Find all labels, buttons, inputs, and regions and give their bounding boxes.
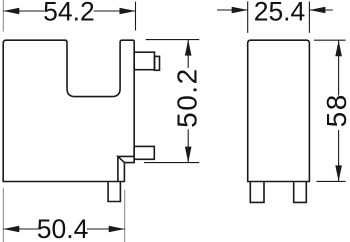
svg-text:25.4: 25.4 <box>254 0 306 27</box>
svg-text:54.2: 54.2 <box>43 0 95 27</box>
svg-text:50.2: 50.2 <box>172 67 203 128</box>
svg-text:50.4: 50.4 <box>37 214 89 242</box>
svg-text:58: 58 <box>321 93 350 127</box>
